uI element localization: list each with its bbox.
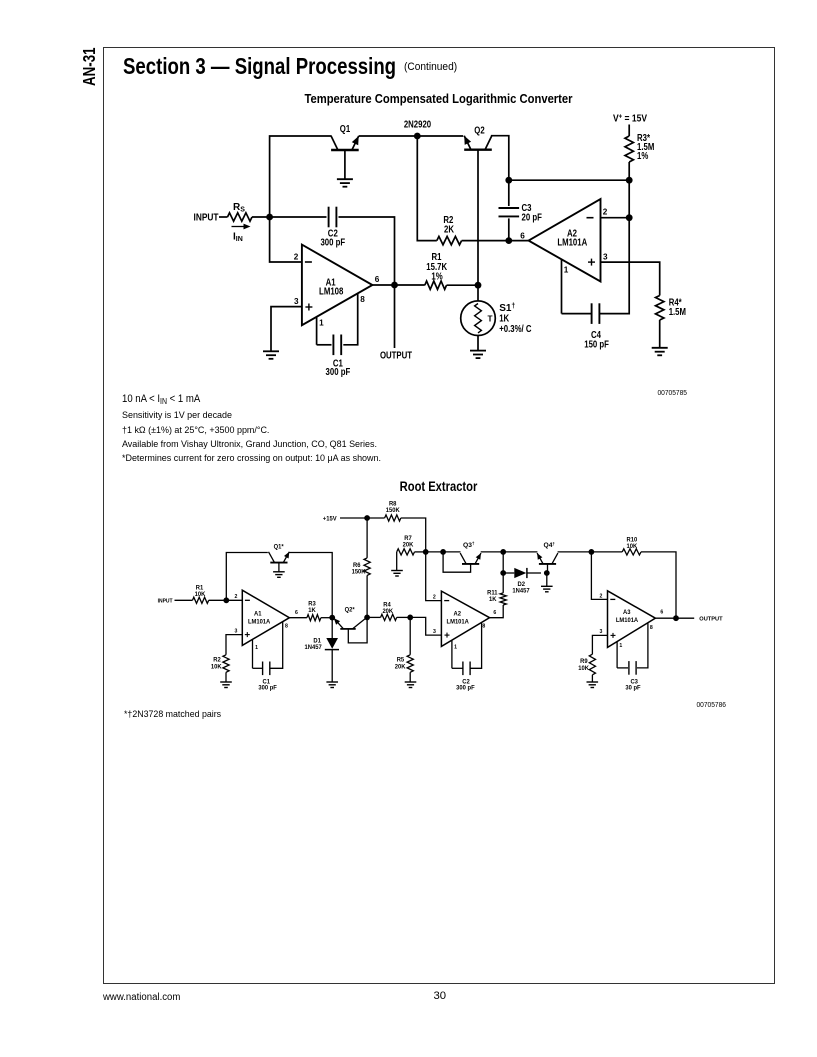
wire A3 pin3 (592, 635, 607, 654)
svg-text:OUTPUT: OUTPUT (699, 617, 723, 623)
svg-text:1%: 1% (431, 272, 442, 283)
svg-text:10K: 10K (627, 543, 638, 550)
wire 2N2920 node to Q2 emitter (417, 135, 463, 137)
wire C3 to pin8 (637, 623, 648, 668)
wire R7 to node (415, 551, 426, 553)
wire A2 pin2 c2 (426, 552, 442, 601)
plus sign A1 pin3 (305, 306, 312, 308)
node Q3 base tie junction (440, 549, 446, 555)
capacitor C4 150pF (591, 303, 593, 324)
wire to A2 pin3 corner (410, 617, 441, 635)
svg-text:10K: 10K (211, 663, 222, 670)
wire input node up to Q1 collector (270, 136, 332, 217)
op-amp A1 LM108 (302, 245, 373, 326)
svg-text:2: 2 (294, 253, 299, 262)
svg-text:8: 8 (482, 624, 485, 630)
minus sign A2 c2 (444, 600, 449, 602)
wire Q3 emitter to D2 node (481, 551, 504, 553)
wire Q1 base to ground c2 (278, 563, 280, 572)
svg-text:A1: A1 (254, 611, 262, 618)
svg-text:150K: 150K (352, 568, 366, 575)
svg-text:300 pF: 300 pF (326, 367, 351, 378)
svg-text:3: 3 (235, 628, 238, 634)
resistor R1 15.7K (425, 281, 447, 289)
svg-text:Q2: Q2 (474, 126, 485, 137)
wire Q1 base down (344, 150, 346, 179)
resistor R3 1.5M (625, 136, 633, 162)
wire to R10 (591, 551, 622, 553)
node D2 cathode junction (544, 570, 550, 576)
wire node up to Q1 collector (226, 553, 267, 601)
svg-text:Q1: Q1 (340, 124, 351, 135)
wire pin2 node down to C4 corner (600, 218, 630, 314)
ground Q1 base (337, 179, 353, 187)
wire C1 to pin8 c2 (271, 622, 283, 669)
wire C3 bottom to A2 output line (508, 218, 510, 240)
node A3 output junction (673, 615, 679, 621)
resistor R3 1K c2 (307, 615, 321, 621)
wire output (676, 617, 694, 619)
svg-text:LM101A: LM101A (447, 619, 469, 626)
heading Section 3 (123, 53, 396, 80)
svg-text:6: 6 (660, 610, 663, 616)
svg-text:3: 3 (294, 297, 299, 306)
svg-text:20K: 20K (403, 542, 414, 549)
notes paragraph (122, 408, 381, 465)
transistor Q4 (537, 553, 558, 564)
node input summing junction (266, 214, 273, 221)
wire C3 top (508, 180, 510, 206)
wire R1 left (395, 284, 425, 286)
svg-text:8: 8 (285, 624, 288, 630)
wire INPUT to Rs (219, 216, 228, 218)
wire R2 to ground c2 (225, 672, 227, 682)
node A1 output junction (391, 282, 398, 289)
wire +15V to R8 node (340, 517, 367, 519)
node A2 pin2 junction (626, 214, 633, 221)
svg-text:2: 2 (600, 594, 603, 600)
plus sign A1 c2 (245, 634, 250, 636)
svg-text:1N457: 1N457 (512, 587, 529, 594)
op-amp A2 LM101A (529, 199, 601, 282)
svg-text:3: 3 (433, 629, 436, 635)
wire R2 to A2 apex (462, 240, 529, 242)
node R3 rail junction (626, 177, 633, 184)
plus sign A2 c2 (445, 634, 450, 636)
svg-text:1: 1 (564, 266, 569, 275)
node 2N2920 junction (414, 133, 421, 140)
resistor R2 2K (437, 236, 462, 244)
plus sign A2 pin3 (588, 261, 595, 263)
diode D2 1N457 (503, 572, 514, 574)
svg-text:IIN: IIN (233, 232, 243, 244)
title circuit 1 (142, 92, 736, 106)
wire input node to A1 pin2 (270, 217, 302, 262)
svg-text:LM108: LM108 (319, 287, 344, 298)
wire R6 bottom to Q2 node (366, 575, 368, 617)
svg-text:1N457: 1N457 (305, 644, 322, 651)
resistor R10 10K (622, 549, 641, 555)
wire V+ to R3 (628, 125, 630, 137)
svg-text:LM101A: LM101A (248, 619, 270, 626)
node D1/Q2 junction (329, 615, 335, 621)
ground A1 pin3 (263, 351, 279, 359)
resistor R11 1K (500, 593, 506, 605)
svg-text:10K: 10K (578, 665, 589, 672)
node Q3/Q4 rail junction (500, 549, 506, 555)
svg-text:00705785: 00705785 (658, 388, 688, 397)
wire C4 left (562, 313, 592, 315)
svg-text:2: 2 (603, 208, 608, 217)
svg-text:20 pF: 20 pF (522, 213, 542, 224)
svg-text:3: 3 (600, 629, 603, 635)
wire output node down (394, 285, 396, 348)
minus sign A2 pin2 (587, 217, 594, 219)
wire R1 to S1 node (447, 284, 479, 286)
svg-text:Q2*: Q2* (345, 606, 355, 613)
wire Q2 base down to R1 node (477, 150, 479, 286)
svg-text:1%: 1% (637, 151, 648, 162)
ground D1 (326, 682, 338, 688)
transistor Q1 (331, 136, 359, 150)
node R10 junction (589, 549, 595, 555)
wire to R8 (367, 517, 385, 519)
wire node down to D2 (502, 552, 504, 573)
svg-text:OUTPUT: OUTPUT (380, 350, 412, 361)
svg-text:Q1*: Q1* (274, 543, 284, 550)
svg-text:Q4†: Q4† (544, 541, 556, 549)
svg-text:1: 1 (255, 645, 258, 651)
svg-text:150 pF: 150 pF (584, 339, 609, 350)
wire Q1 emitter to corner down to D1 (289, 553, 332, 618)
footer left (103, 992, 180, 1003)
wire Q3 base wrap to node (443, 552, 471, 572)
wire R4 to ground (659, 320, 661, 348)
minus sign A3 (610, 598, 615, 600)
svg-text:A3: A3 (623, 609, 631, 616)
svg-text:300 pF: 300 pF (456, 685, 475, 692)
wire A1 output pin6 (372, 284, 394, 286)
ground R4 (652, 348, 668, 356)
svg-text:1K: 1K (308, 607, 316, 614)
svg-text:2K: 2K (444, 224, 455, 235)
resistor R7 20K (397, 549, 415, 555)
capacitor C3 20pF (499, 207, 520, 209)
svg-text:RS: RS (233, 202, 245, 214)
ground R7 left (396, 552, 398, 570)
wire R11 top (502, 576, 504, 593)
node R5 junction (407, 615, 413, 621)
wire C1 right to pin8 (343, 294, 357, 345)
node R11/D2 junction (500, 570, 506, 576)
transistor Q2 c2 (334, 618, 366, 629)
svg-text:300 pF: 300 pF (258, 685, 277, 692)
svg-text:A2: A2 (454, 611, 462, 618)
wire R2 line: 2N2920 down and across to A2 output (417, 136, 437, 241)
wire Rs to input node (252, 216, 270, 218)
wire collector rail to R3 (509, 179, 629, 181)
svg-text:6: 6 (295, 610, 298, 616)
svg-text:00705786: 00705786 (697, 700, 727, 709)
plus sign A3 (611, 634, 616, 636)
wire A2 pin2 to R3 node (601, 217, 630, 219)
node Q2 collector / C3 junction (505, 177, 512, 184)
wire to D1 (331, 618, 333, 638)
svg-text:2: 2 (433, 595, 436, 601)
node R8/R7 junction (423, 549, 429, 555)
node A2 output junction (505, 237, 512, 244)
wire input to R1 (175, 599, 193, 601)
wire A2 output to R11 (490, 605, 504, 618)
wire rail to Q4 (503, 551, 537, 553)
transistor Q3 (460, 553, 481, 564)
wire C2 to pin8 c2 (470, 623, 481, 669)
svg-text:6: 6 (520, 232, 525, 241)
svg-text:INPUT: INPUT (158, 599, 174, 605)
heading continued (404, 61, 457, 73)
wire to R4 (367, 616, 381, 618)
svg-text:LM101A: LM101A (557, 237, 587, 248)
wire C2 left (270, 216, 327, 218)
node R1 / S1 junction (475, 282, 482, 289)
svg-text:V+ = 15V: V+ = 15V (613, 113, 647, 124)
transistor Q1 c2 (269, 552, 290, 563)
thermistor S1 1K (461, 301, 496, 336)
sidebar label AN-31 (82, 47, 96, 86)
wire A1 pin3 to R2 c2 (226, 635, 242, 655)
svg-text:1.5M: 1.5M (669, 307, 686, 318)
ground S1 (470, 351, 486, 359)
wire R10 node down to A3 pin2 (591, 552, 607, 600)
wire A2 pin3 to R4 (601, 262, 660, 295)
footnote (124, 709, 221, 719)
resistor R6 150K (364, 558, 370, 576)
svg-text:2N2920: 2N2920 (404, 120, 432, 131)
wire Q2 collector to corner (491, 136, 509, 181)
wire Q4 emitter to R10 node (558, 551, 592, 553)
wire R3 to pin2 node (628, 162, 630, 218)
node A1 pin2 junction c2 (223, 597, 229, 603)
svg-text:R9: R9 (580, 658, 588, 665)
resistor R5 20K (409, 617, 411, 654)
op-amp A1 LM101A c2 (242, 590, 289, 645)
wire C1 left (317, 344, 332, 346)
wire A1 pin1 down to C1 (316, 317, 318, 345)
wire A1 pin1 to C1 c2 (252, 640, 254, 669)
svg-text:10K: 10K (195, 591, 206, 598)
svg-text:1K: 1K (489, 596, 497, 603)
wire R9 to ground (591, 675, 593, 682)
footer page number (434, 990, 447, 1002)
capacitor C3 30pF (628, 661, 630, 675)
svg-text:6: 6 (493, 610, 496, 616)
svg-text:2: 2 (235, 594, 238, 600)
resistor R4 20K (381, 614, 397, 620)
wire R3 to D1 node (321, 617, 332, 619)
wire to Q3 collector leg (443, 551, 460, 553)
transistor Q2 (464, 136, 492, 150)
wire Q4 base (547, 564, 549, 573)
capacitor C1 300pF c2 (262, 662, 264, 676)
svg-text:20K: 20K (382, 608, 393, 615)
svg-text:+0.3%/ C: +0.3%/ C (499, 324, 531, 335)
wire A1 pin2 c2 (226, 599, 242, 601)
node R6 bottom junction (364, 615, 370, 621)
wire Q2 base wrap (348, 617, 367, 643)
resistor R8 150K (385, 515, 401, 521)
wire R10 to output node (641, 552, 676, 618)
svg-text:3: 3 (603, 253, 608, 262)
wire A2 pin1 to C2 c2 (451, 641, 453, 669)
svg-text:T: T (487, 314, 492, 323)
svg-text:1: 1 (619, 643, 622, 649)
resistor R4 1.5M (656, 296, 664, 321)
svg-text:20K: 20K (395, 663, 406, 670)
wire S1 to ground (477, 336, 479, 351)
svg-text:1: 1 (319, 318, 324, 327)
op-amp A3 LM101A (608, 591, 656, 648)
op-amp A2 LM101A c2 (441, 591, 489, 646)
svg-text:S1†: S1† (499, 303, 515, 314)
minus sign A1 pin2 (305, 261, 312, 263)
svg-text:1: 1 (454, 645, 457, 651)
wire R1 to node (209, 599, 227, 601)
svg-text:INPUT: INPUT (194, 212, 219, 223)
svg-text:6: 6 (375, 275, 380, 284)
resistor R2 10K c2 (223, 655, 229, 673)
wire A2 pin1 down to C4 (561, 260, 563, 314)
svg-text:150K: 150K (386, 507, 400, 514)
svg-text:30 pF: 30 pF (625, 685, 640, 692)
svg-text:+15V: +15V (323, 515, 337, 522)
wire A1 output c2 (289, 617, 307, 619)
svg-text:LM101A: LM101A (616, 617, 638, 624)
wire A1 pin3 to ground (271, 307, 302, 351)
svg-text:8: 8 (650, 625, 653, 631)
capacitor C1 300pF (332, 335, 334, 356)
diode D1 1N457 (326, 638, 338, 649)
minus sign A1 c2 (245, 599, 250, 601)
wire R8 to corner down to R7 line (401, 518, 426, 552)
wire A3 pin1 to C3 (616, 642, 618, 668)
resistor R1 10K c2 (193, 597, 209, 603)
node R6 top junction (364, 515, 370, 521)
svg-text:8: 8 (360, 295, 365, 304)
svg-text:Q3†: Q3† (463, 541, 475, 549)
wire R6 top (366, 518, 368, 558)
title circuit 2 (158, 479, 718, 494)
notes line 1 (122, 393, 200, 405)
wire D2 node to ground (546, 573, 548, 586)
capacitor C2 300pF c2 (462, 662, 464, 676)
wire A3 output (655, 617, 676, 619)
resistor R9 10K (589, 654, 595, 675)
wire to Q3 base node (426, 551, 443, 553)
page border frame (103, 47, 775, 984)
wire S1 node down to thermistor (477, 285, 479, 301)
current arrow IIN (232, 226, 247, 228)
wire Q1 emitter to 2N2920 node (359, 135, 418, 137)
wire R4 to R5 node (397, 616, 411, 618)
wire C2 right to output node (339, 217, 395, 285)
capacitor C2 300pF (328, 207, 330, 228)
resistor Rs (228, 213, 253, 221)
svg-text:300 pF: 300 pF (320, 238, 345, 249)
wire R5 to ground (409, 672, 411, 682)
